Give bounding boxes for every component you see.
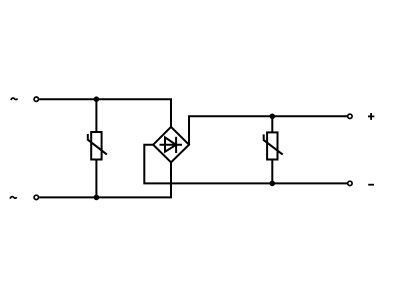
bridge rectifier B1	[153, 127, 189, 162]
junction top of varistor RV1	[94, 96, 100, 102]
wire bridge left corner to - rail	[144, 145, 347, 184]
label -	[368, 184, 374, 186]
junction bottom of varistor RV2	[270, 181, 276, 187]
terminal bottom-left AC	[34, 195, 38, 199]
junction bottom of varistor RV1	[94, 195, 100, 201]
terminal - output	[348, 181, 352, 185]
varistor RV1	[88, 99, 107, 197]
wire bridge right corner to + rail	[189, 116, 347, 144]
label ~ (top AC input)	[11, 98, 17, 100]
wire bottom AC rail to bridge bottom corner	[39, 161, 171, 197]
label +	[368, 113, 374, 120]
terminal top-left AC	[34, 97, 38, 101]
wire top AC rail to bridge top corner	[39, 99, 171, 127]
label ~ (bottom AC input)	[10, 197, 16, 199]
varistor RV2	[264, 116, 283, 183]
junction top of varistor RV2	[270, 114, 276, 120]
terminal + output	[348, 114, 352, 118]
